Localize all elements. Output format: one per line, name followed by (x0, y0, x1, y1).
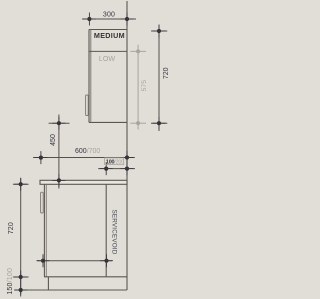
svg-text:450: 450 (50, 134, 57, 146)
svg-text:720: 720 (6, 222, 15, 234)
svg-text:100/200: 100/200 (106, 159, 124, 165)
svg-text:300: 300 (103, 11, 115, 18)
svg-text:MEDIUM: MEDIUM (94, 31, 125, 40)
svg-text:720: 720 (163, 67, 169, 79)
svg-text:SERVICEVOID: SERVICEVOID (110, 210, 117, 255)
svg-text:600/700: 600/700 (75, 148, 100, 155)
svg-text:150/100: 150/100 (7, 268, 14, 295)
svg-text:LOW: LOW (99, 55, 115, 63)
svg-text:575: 575 (141, 80, 148, 92)
